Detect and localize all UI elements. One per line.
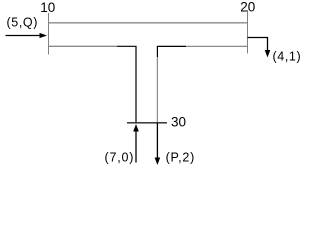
svg-text:(P,2): (P,2)	[166, 151, 195, 165]
svg-text:(7,0): (7,0)	[105, 151, 135, 165]
outflow arrow (4,1)	[248, 38, 271, 58]
node 20 tick	[247, 10, 249, 54]
node 10 tick	[48, 13, 50, 55]
outflow arrow (P,2)	[155, 123, 161, 165]
wire: pipe 20-30 black elbow	[157, 46, 186, 57]
svg-text:(4,1): (4,1)	[273, 50, 302, 64]
wire: top pipe 10-20	[49, 22, 248, 24]
svg-text:30: 30	[171, 115, 186, 130]
inflow arrow (7,0)	[133, 124, 139, 163]
node 30 tick	[127, 122, 167, 124]
svg-text:10: 10	[40, 0, 55, 15]
wire: pipe 10-30 gray segment	[49, 45, 118, 47]
wire: pipe 10-30 black elbow down to node 30	[117, 46, 136, 123]
wire: pipe 20-30 gray segment from node 20	[186, 45, 248, 47]
svg-text:(5,Q): (5,Q)	[7, 15, 38, 29]
inflow arrow (5,Q)	[6, 33, 48, 38]
wire: pipe 20-30 gray vertical down to node 30	[156, 57, 158, 123]
